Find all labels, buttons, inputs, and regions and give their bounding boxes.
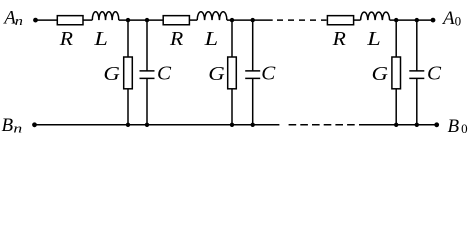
junction top G3 xyxy=(394,18,398,22)
junction top C2 xyxy=(251,18,255,22)
wire R1 to L1 xyxy=(83,19,92,21)
node A0 terminal dot xyxy=(431,18,436,23)
svg-text:R: R xyxy=(169,28,183,50)
svg-text:L: L xyxy=(93,28,108,50)
inductor L (section 3) xyxy=(361,12,390,20)
resistor R (section 3) xyxy=(327,16,353,25)
junction bottom C2 xyxy=(251,123,255,127)
svg-text:A0: A0 xyxy=(441,8,461,29)
wire L2 to dashed break xyxy=(227,19,273,21)
conductance G (section 3) xyxy=(392,57,401,89)
resistor R (section 1) xyxy=(57,16,83,25)
wire C branch top (section 3) xyxy=(416,20,418,71)
junction bottom G3 xyxy=(394,123,398,127)
node Bn terminal dot xyxy=(32,122,37,127)
capacitor C (section 1) xyxy=(140,71,155,79)
wire R2 to L2 xyxy=(189,19,197,21)
wire G branch bottom (section 1) xyxy=(127,89,129,125)
node An terminal dot xyxy=(33,18,38,23)
conductance G (section 2) xyxy=(228,57,237,89)
conductance G (section 1) xyxy=(124,57,133,89)
wire C branch bottom (section 1) xyxy=(146,78,148,124)
resistor R (section 2) xyxy=(163,16,189,25)
wire bottom dashed break xyxy=(289,124,356,126)
junction top C3 xyxy=(415,18,419,22)
svg-text:C: C xyxy=(427,62,442,84)
svg-text:L: L xyxy=(366,28,381,50)
junction bottom C1 xyxy=(145,123,149,127)
svg-text:C: C xyxy=(261,62,276,84)
svg-text:C: C xyxy=(157,62,172,84)
svg-text:Bn: Bn xyxy=(2,115,23,136)
wire bottom rail right solid xyxy=(359,124,437,126)
wire C branch top (section 1) xyxy=(146,20,148,71)
wire L3 to A0 terminal xyxy=(390,19,433,21)
wire G branch bottom (section 3) xyxy=(395,89,397,125)
junction bottom G1 xyxy=(126,123,130,127)
wire C branch bottom (section 3) xyxy=(416,78,418,124)
svg-text:R: R xyxy=(332,28,346,50)
inductor L (section 2) xyxy=(197,12,227,20)
capacitor C (section 3) xyxy=(409,71,424,79)
wire C branch top (section 2) xyxy=(252,20,254,71)
wire G branch top (section 2) xyxy=(231,20,233,57)
svg-text:An: An xyxy=(2,8,23,29)
wire bottom rail left solid xyxy=(35,124,280,126)
svg-text:G: G xyxy=(372,63,389,85)
svg-text:B0: B0 xyxy=(448,116,468,137)
capacitor C (section 2) xyxy=(245,71,260,79)
junction top G2 xyxy=(230,18,234,22)
svg-text:G: G xyxy=(103,63,120,85)
wire G branch top (section 1) xyxy=(127,20,129,57)
wire R3 to L3 xyxy=(354,19,361,21)
svg-text:L: L xyxy=(203,28,218,50)
wire G branch top (section 3) xyxy=(395,20,397,57)
inductor L (section 1) xyxy=(92,12,118,20)
junction top C1 xyxy=(145,18,149,22)
junction bottom C3 xyxy=(415,123,419,127)
node B0 terminal dot xyxy=(434,122,439,127)
junction bottom G2 xyxy=(230,123,234,127)
wire top dashed break xyxy=(277,19,327,21)
junction top G1 xyxy=(126,18,130,22)
svg-text:G: G xyxy=(208,63,225,85)
wire C branch bottom (section 2) xyxy=(252,78,254,124)
wire G branch bottom (section 2) xyxy=(231,89,233,125)
svg-text:R: R xyxy=(59,28,73,50)
wire L1 to R2 through nodes xyxy=(119,19,163,21)
wire top rail: An terminal to R1 xyxy=(36,19,58,21)
